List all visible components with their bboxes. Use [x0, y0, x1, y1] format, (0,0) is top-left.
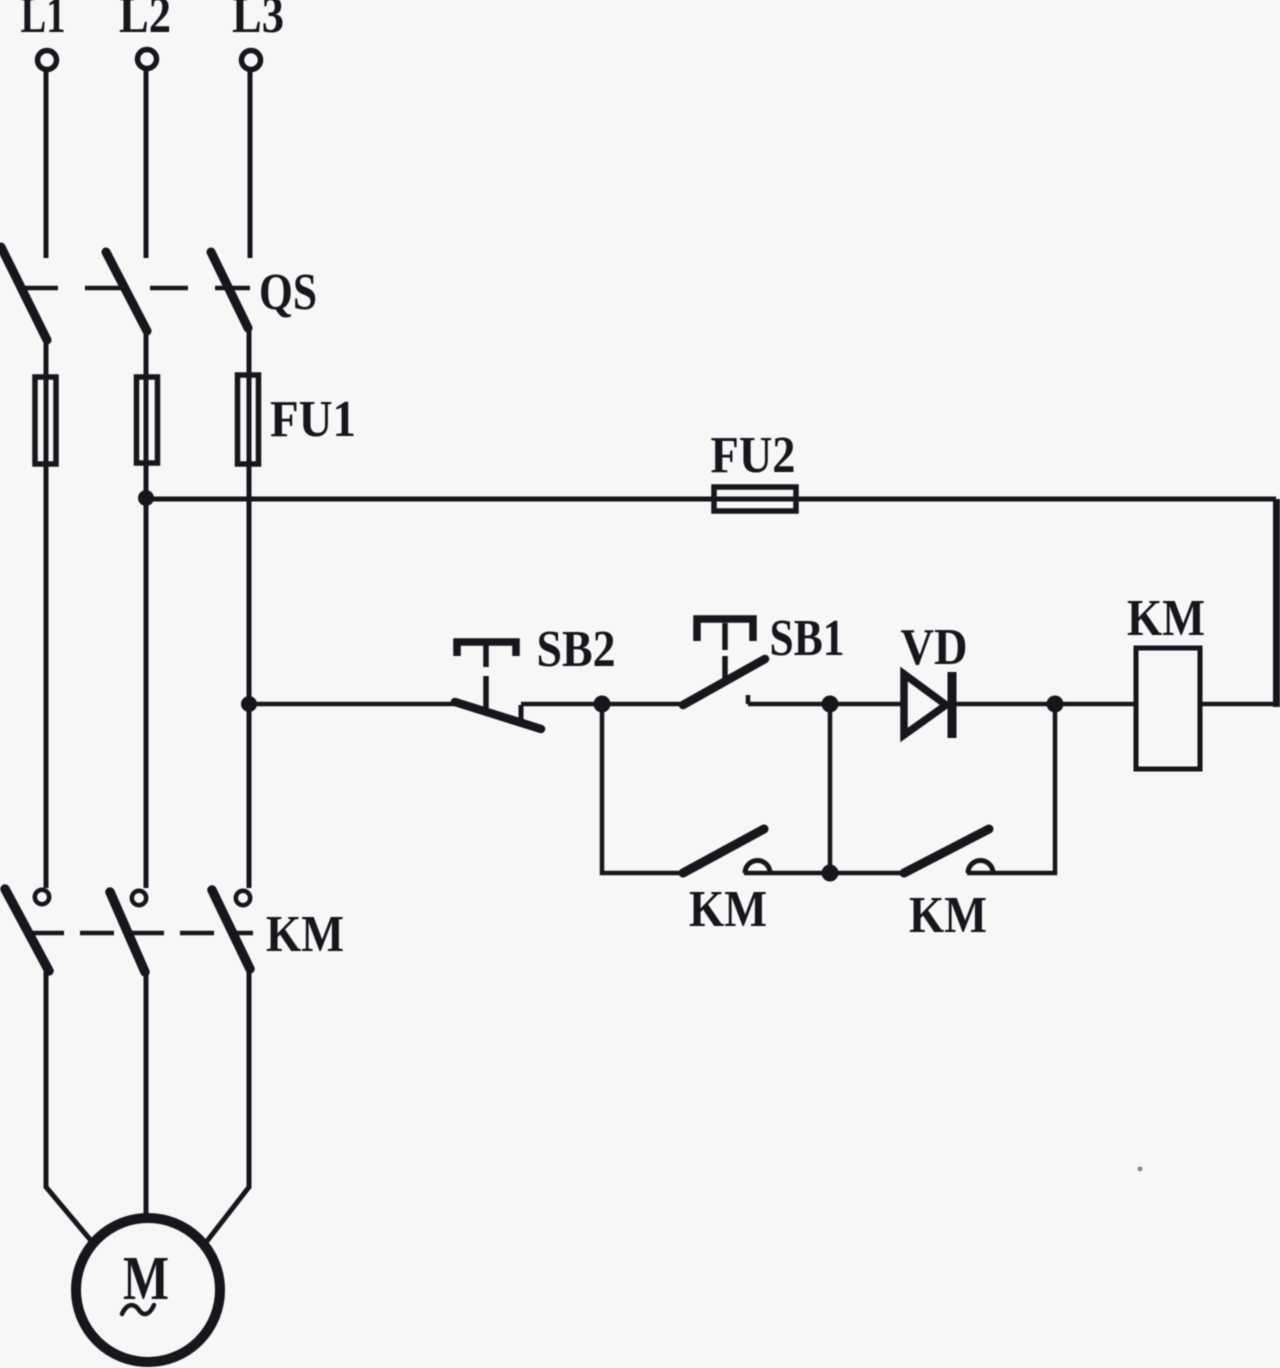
contact KM aux 1 fixed arc: [745, 860, 770, 873]
junction dot node C: [1047, 696, 1064, 713]
wire control top rail: [146, 497, 1276, 502]
switch QS blade pole 1: [1, 247, 47, 340]
fuse FU1 pole 3: [238, 375, 259, 464]
svg-text:VD: VD: [901, 619, 968, 676]
junction dot node A: [594, 696, 611, 713]
pushbutton SB2 blade: [455, 702, 541, 729]
svg-text:FU2: FU2: [711, 427, 796, 484]
pushbutton SB2 actuator stem: [483, 642, 489, 667]
contactor KM main blade pole 1: [5, 889, 49, 971]
switch QS blade pole 2: [106, 252, 147, 331]
pushbutton SB2 actuator bracket: [457, 642, 516, 656]
wire motor lead phase C: [204, 967, 249, 1245]
fuse FU1 pole 2: [137, 377, 158, 463]
fuse FU1 pole 1: [35, 377, 56, 464]
coil KM rectangle: [1136, 648, 1200, 769]
motor AC tilde: [122, 1305, 154, 1314]
wire aux2 to node C riser: [967, 704, 1055, 873]
wire SB1 to node B: [748, 702, 831, 707]
motor M circle: [76, 1218, 220, 1362]
switch QS linkage dashed line: [20, 286, 250, 291]
contactor KM main fixed hook pole 1: [35, 890, 49, 904]
svg-text:KM: KM: [266, 906, 344, 963]
svg-text:SB2: SB2: [537, 621, 616, 678]
junction dot node D: [822, 865, 839, 882]
contactor KM main fixed hook pole 2: [132, 891, 146, 905]
contact KM aux 1 blade: [683, 829, 764, 873]
wire motor lead phase B: [144, 971, 149, 1216]
scan speck artifact: [1138, 1167, 1143, 1172]
svg-text:SB1: SB1: [770, 610, 845, 667]
wire SB2 to node A: [521, 702, 602, 707]
wire phase C column (QS to KM contact): [247, 326, 252, 888]
diode VD cathode bar: [948, 672, 957, 738]
junction dot control rung at L3: [241, 696, 257, 712]
wire rung to SB2: [249, 702, 456, 707]
svg-text:M: M: [123, 1245, 169, 1313]
svg-text:L3: L3: [232, 0, 284, 44]
svg-text:KM: KM: [689, 881, 767, 938]
contactor KM main fixed hook pole 3: [236, 891, 250, 905]
terminal circle L3: [242, 51, 261, 70]
junction dot control feed at L2: [138, 490, 154, 506]
wire L1 drop to QS: [44, 71, 49, 258]
junction dot node B: [822, 696, 839, 713]
wire motor lead phase A: [46, 969, 93, 1243]
svg-text:KM: KM: [909, 887, 987, 944]
wire node B to diode VD: [830, 702, 905, 707]
diode VD triangle: [904, 674, 946, 735]
wire phase B column (QS to KM contact): [144, 329, 149, 888]
contactor KM main blade pole 2: [110, 892, 145, 972]
contact KM aux 2 blade: [904, 829, 989, 873]
pushbutton SB2 contact tick: [519, 705, 524, 721]
contact KM aux 2 fixed arc: [968, 860, 993, 873]
wire node D to aux2: [830, 871, 905, 876]
wire L2 drop to QS: [144, 70, 149, 258]
contactor KM main blade pole 3: [212, 890, 250, 969]
wire node C to KM coil: [1055, 702, 1136, 707]
switch QS blade pole 3: [211, 252, 248, 328]
pushbutton SB1 contact tick: [746, 695, 751, 704]
wire branch node B down: [828, 704, 833, 873]
svg-text:FU1: FU1: [270, 391, 356, 448]
pushbutton SB1 blade: [683, 659, 765, 705]
contactor KM linkage dashed line: [30, 931, 253, 936]
svg-text:QS: QS: [259, 264, 317, 321]
terminal circle L1: [38, 51, 57, 70]
wire branch node A down: [602, 704, 684, 873]
pushbutton SB1 actuator bracket: [697, 619, 753, 641]
terminal circle L2: [138, 50, 157, 69]
svg-text:L1: L1: [21, 0, 66, 44]
svg-text:L2: L2: [119, 0, 171, 44]
wire aux1 to node D: [744, 871, 832, 876]
wire VD to node C: [952, 702, 1055, 707]
fuse FU2: [714, 487, 796, 511]
svg-text:KM: KM: [1127, 590, 1205, 647]
wire node A to SB1: [602, 702, 684, 707]
wire KM coil to right rail: [1200, 702, 1279, 707]
pushbutton SB1 actuator stem: [722, 623, 728, 650]
wire phase A column (QS to KM contact): [44, 337, 49, 888]
wire L3 drop to QS: [248, 71, 253, 258]
